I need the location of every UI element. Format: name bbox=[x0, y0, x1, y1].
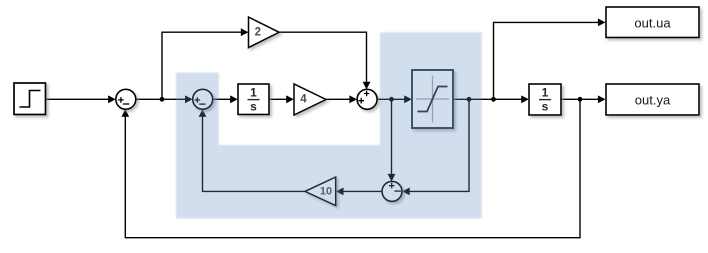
svg-text:1: 1 bbox=[250, 86, 257, 100]
svg-text:s: s bbox=[250, 100, 257, 114]
node C (branch down to sum3 right input) bbox=[467, 97, 472, 102]
wire gain10 to inner sum (feedback up) bbox=[199, 109, 305, 191]
gain 2 bbox=[249, 17, 280, 47]
integrator1 1/s bbox=[238, 84, 269, 115]
wire inner sum to integrator1 bbox=[213, 95, 238, 103]
wire saturation to integrator2 bbox=[453, 95, 529, 103]
sum3 minus sign bbox=[395, 190, 401, 192]
sum3 plus sign bbox=[389, 183, 395, 189]
gain 10 (feedback, points left) bbox=[305, 177, 336, 206]
wire sum3 to gain10 bbox=[336, 188, 382, 196]
sum1 minus sign bbox=[123, 103, 129, 105]
svg-text:4: 4 bbox=[300, 94, 307, 106]
svg-text:1: 1 bbox=[542, 86, 549, 100]
svg-text:out.ya: out.ya bbox=[635, 93, 671, 108]
wire integrator1 to gain4 bbox=[269, 95, 294, 103]
sum2 left plus sign bbox=[358, 98, 364, 104]
svg-text:2: 2 bbox=[255, 27, 261, 39]
wire integrator2 to out.ya bbox=[561, 95, 606, 103]
sum junction sum3 (bottom) bbox=[382, 181, 402, 201]
sum2 top plus sign bbox=[364, 91, 370, 97]
node D (branch up to out.ua) bbox=[491, 97, 496, 102]
node B (branch down to sum3 top) bbox=[389, 97, 394, 102]
sum1 plus sign bbox=[118, 97, 124, 103]
wire node A up to gain 2 bbox=[162, 28, 248, 99]
wire sum2 to saturation bbox=[377, 95, 412, 103]
inner sum plus sign bbox=[195, 97, 201, 103]
wire step to sum1 bbox=[46, 95, 116, 103]
wire sum1 to inner sum bbox=[136, 95, 193, 103]
gain 4 bbox=[294, 84, 326, 115]
step input block bbox=[14, 83, 46, 115]
wire node C down and left to sum3 bbox=[402, 99, 469, 195]
highlight overlay region (selection rectangles union) bbox=[176, 32, 482, 218]
inner sum minus sign bbox=[199, 103, 205, 105]
wire gain4 to sum2 bbox=[326, 95, 357, 103]
wire node B down to sum3 top bbox=[388, 99, 396, 181]
svg-text:out.ua: out.ua bbox=[634, 15, 671, 30]
outport out.ya bbox=[606, 84, 699, 115]
sum junction inner (sum4) bbox=[193, 89, 213, 109]
svg-text:s: s bbox=[542, 100, 549, 114]
sum junction sum1 bbox=[116, 89, 136, 109]
integrator2 1/s bbox=[529, 84, 561, 115]
saturation block bbox=[412, 70, 453, 128]
wire outer feedback: node E down, across bottom, up to sum1 bbox=[121, 99, 580, 237]
outport out.ua bbox=[606, 7, 699, 38]
wire node D up and right to out.ua bbox=[494, 19, 606, 100]
node E (branch to outer feedback) bbox=[578, 97, 583, 102]
sum junction sum2 bbox=[357, 89, 377, 109]
wire gain 2 to sum2 (down into top) bbox=[279, 32, 370, 89]
node A (branch to gain 2) bbox=[160, 97, 165, 102]
